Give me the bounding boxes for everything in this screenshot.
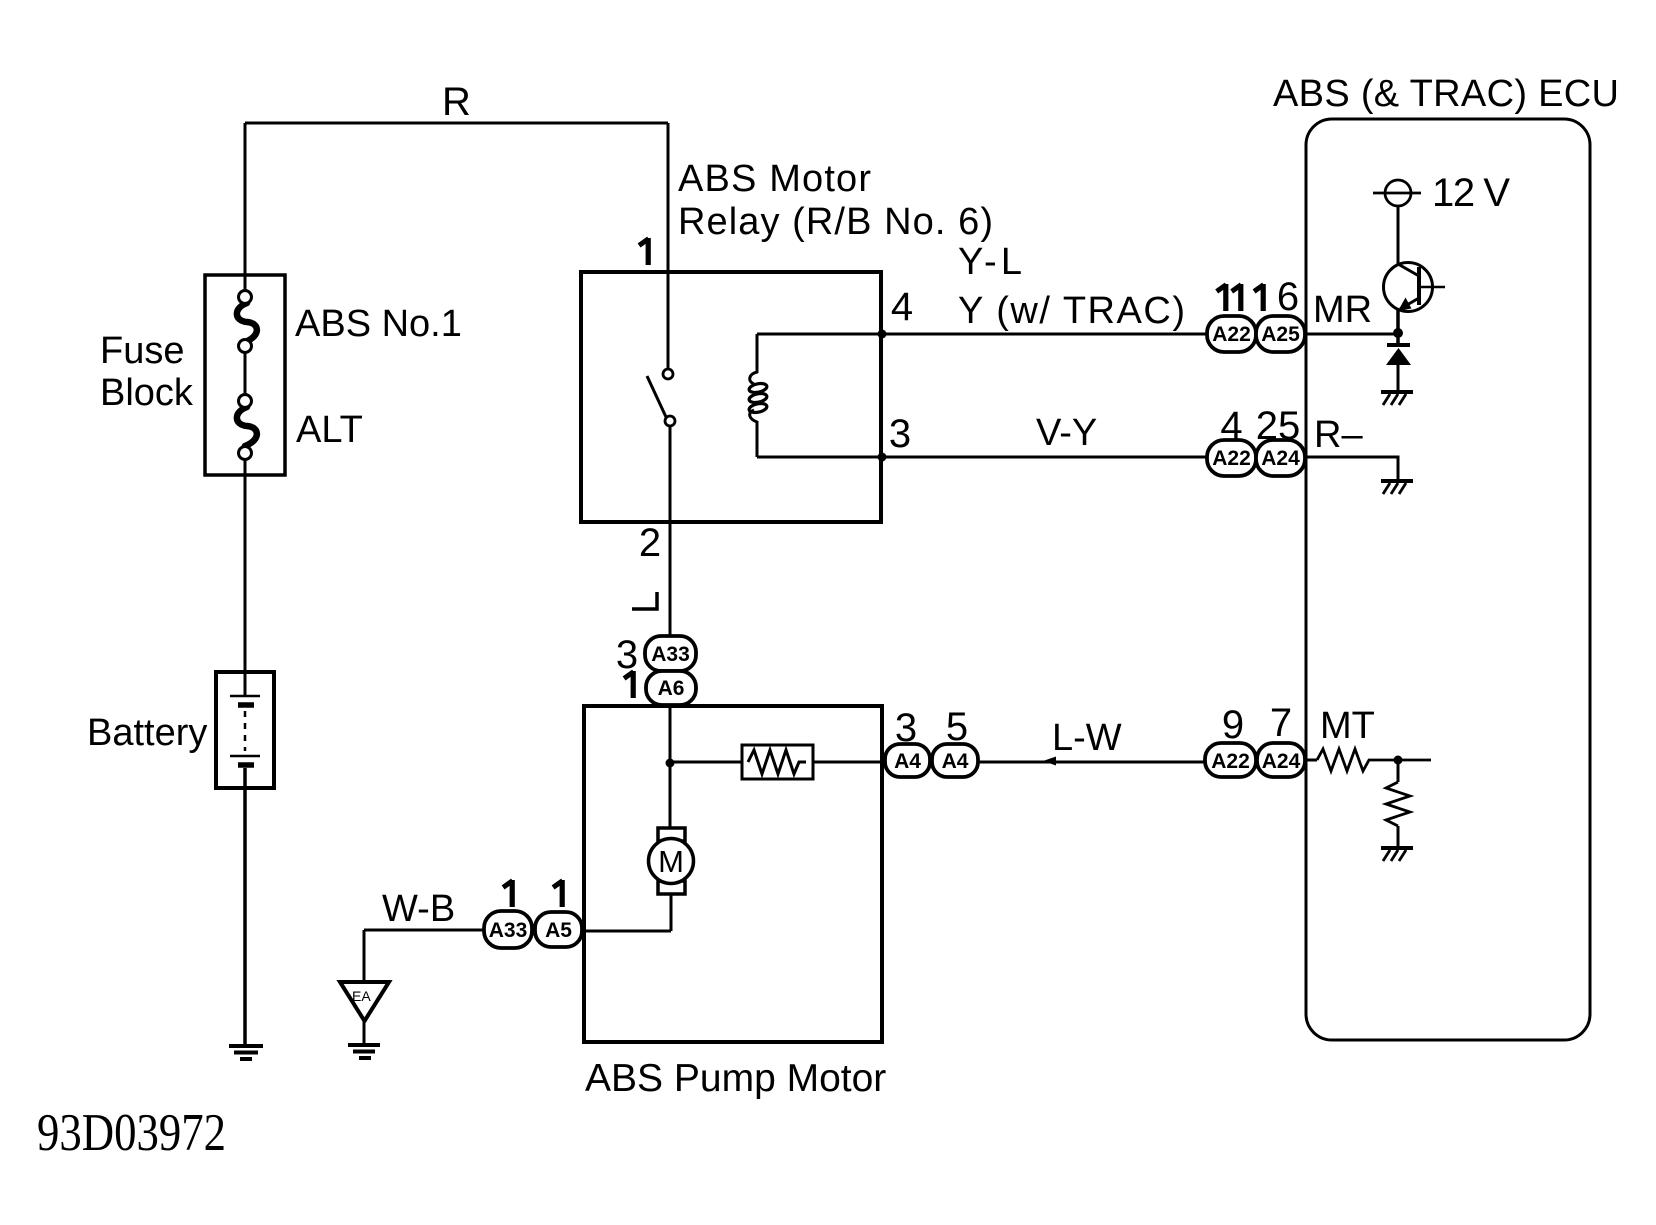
svg-text:3: 3 [616, 633, 638, 677]
svg-text:MR: MR [1313, 289, 1372, 331]
svg-text:A33: A33 [489, 919, 528, 942]
svg-text:L-W: L-W [1052, 717, 1122, 759]
svg-text:A24: A24 [1262, 750, 1301, 773]
svg-text:V-Y: V-Y [1036, 412, 1097, 454]
svg-text:A22: A22 [1212, 323, 1251, 346]
svg-text:EA: EA [352, 988, 371, 1004]
svg-text:ABS Pump Motor: ABS Pump Motor [585, 1057, 886, 1100]
svg-text:25: 25 [1256, 404, 1301, 448]
svg-text:ABS (& TRAC) ECU: ABS (& TRAC) ECU [1273, 73, 1619, 115]
svg-text:Block: Block [100, 372, 194, 414]
svg-text:MT: MT [1320, 705, 1375, 747]
svg-text:A33: A33 [651, 643, 690, 666]
svg-text:ABS Motor: ABS Motor [678, 158, 871, 200]
svg-text:A22: A22 [1212, 447, 1251, 470]
svg-text:W-B: W-B [382, 888, 455, 930]
svg-text:A6: A6 [658, 677, 685, 700]
svg-text:A22: A22 [1211, 750, 1250, 773]
svg-text:93D03972: 93D03972 [37, 1104, 226, 1162]
svg-text:R: R [442, 80, 471, 124]
svg-text:A24: A24 [1261, 447, 1300, 470]
svg-text:M: M [658, 844, 684, 879]
svg-text:7: 7 [1270, 701, 1292, 745]
svg-text:3: 3 [895, 706, 917, 750]
svg-text:9: 9 [1222, 703, 1244, 747]
svg-text:A4: A4 [894, 750, 921, 773]
svg-text:Battery: Battery [87, 712, 207, 754]
svg-text:A5: A5 [545, 919, 572, 942]
svg-text:12 V: 12 V [1432, 171, 1510, 215]
svg-text:2: 2 [639, 521, 661, 565]
svg-text:ABS No.1: ABS No.1 [295, 303, 462, 345]
svg-text:Fuse: Fuse [100, 330, 184, 372]
svg-text:6: 6 [1277, 275, 1299, 319]
svg-text:Y (w/ TRAC): Y (w/ TRAC) [958, 290, 1185, 332]
svg-text:ALT: ALT [296, 409, 363, 451]
svg-text:5: 5 [946, 705, 968, 749]
svg-text:Y-L: Y-L [958, 241, 1022, 283]
svg-text:4: 4 [1220, 404, 1242, 448]
svg-text:R–: R– [1314, 414, 1363, 456]
svg-text:Relay (R/B No. 6): Relay (R/B No. 6) [678, 201, 993, 243]
svg-text:A25: A25 [1261, 323, 1300, 346]
svg-text:3: 3 [889, 412, 911, 456]
svg-text:4: 4 [891, 285, 913, 329]
svg-text:A4: A4 [942, 750, 969, 773]
